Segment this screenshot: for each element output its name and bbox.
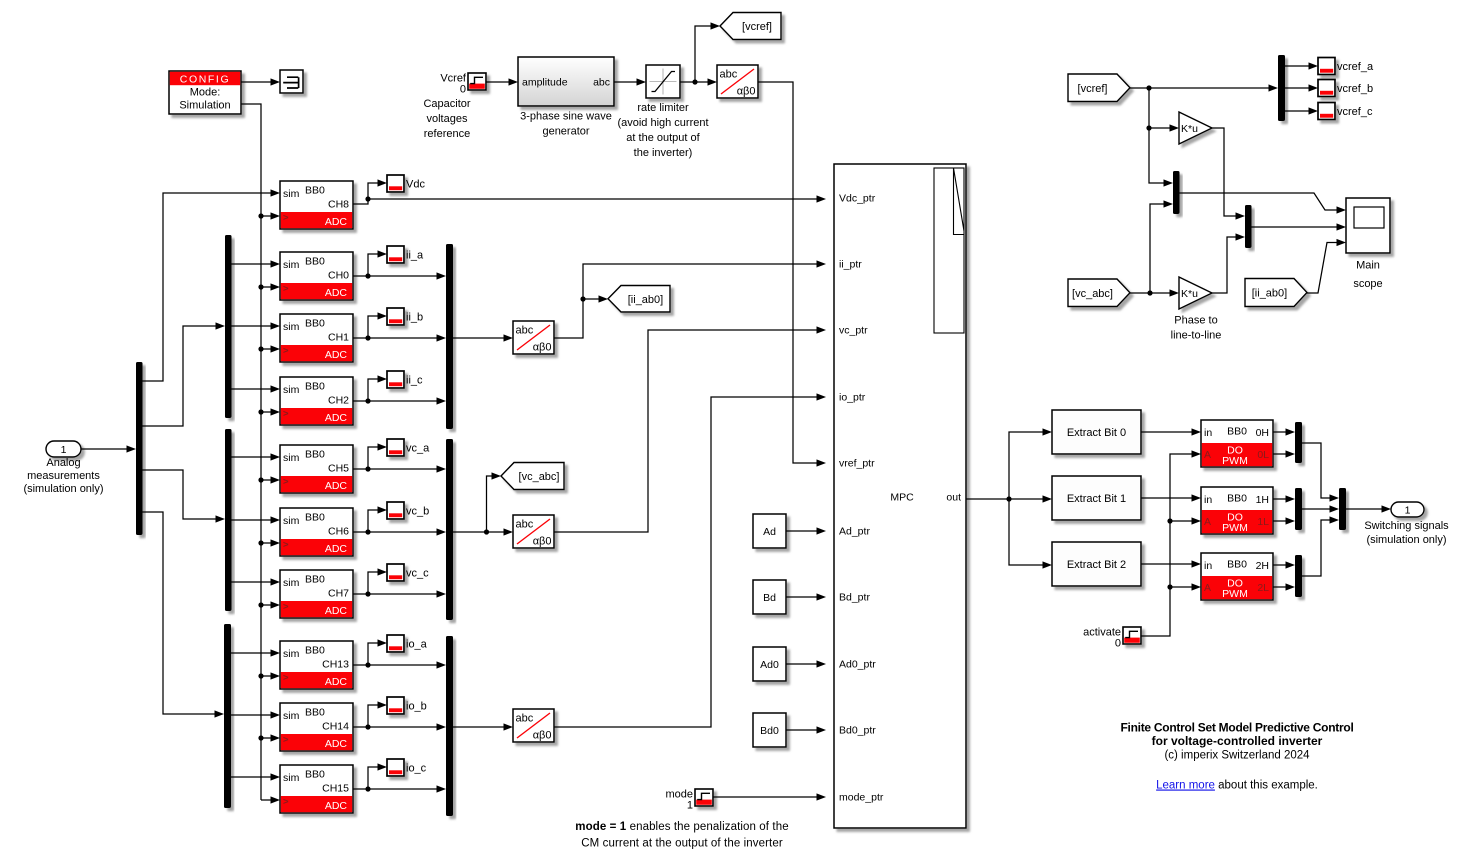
svg-text:[vc_abc]: [vc_abc] xyxy=(1072,288,1113,300)
svg-text:(simulation only): (simulation only) xyxy=(23,483,103,495)
display block vc_c xyxy=(387,564,429,581)
svg-text:sim: sim xyxy=(283,577,300,589)
svg-text:CH2: CH2 xyxy=(328,395,349,407)
abc to alpha-beta-0 block (vc) xyxy=(513,515,554,548)
svg-text:BB0: BB0 xyxy=(305,449,325,461)
constant block mode xyxy=(665,789,713,812)
wire Extract Bit 1 to DO PWM 1 xyxy=(1141,494,1201,501)
svg-text:BB0: BB0 xyxy=(305,318,325,330)
constant block activate xyxy=(1083,627,1141,650)
wire CH6 out to display and collect bar xyxy=(353,506,446,535)
svg-text:CH7: CH7 xyxy=(328,588,349,600)
from tag [vcref] xyxy=(1068,74,1130,102)
svg-text:>: > xyxy=(283,409,289,420)
svg-text:ADC: ADC xyxy=(325,349,348,361)
wire vcref from-tag to mux and gain and bar1 xyxy=(1130,84,1278,186)
svg-text:Ad: Ad xyxy=(763,526,776,538)
DO PWM 0 block xyxy=(1201,420,1273,467)
svg-text:CH13: CH13 xyxy=(322,659,349,671)
svg-text:CH8: CH8 xyxy=(328,199,349,211)
svg-text:in: in xyxy=(1204,427,1212,439)
svg-text:vcref_a: vcref_a xyxy=(1337,61,1374,73)
goto tag [ii_ab0] xyxy=(608,286,670,313)
svg-text:Ad0_ptr: Ad0_ptr xyxy=(839,659,876,671)
ADC block CH7 xyxy=(280,570,353,618)
svg-text:BB0: BB0 xyxy=(305,512,325,524)
wire demux to CH15 sim input xyxy=(231,773,280,780)
svg-text:Main: Main xyxy=(1356,260,1380,272)
svg-text:sim: sim xyxy=(283,515,300,527)
svg-text:sim: sim xyxy=(283,710,300,722)
svg-text:BB0: BB0 xyxy=(1227,493,1247,505)
svg-text:io_b: io_b xyxy=(406,701,427,713)
wire demux to CH5 sim input xyxy=(232,453,281,460)
final mux bar xyxy=(1339,488,1346,530)
svg-text:2L: 2L xyxy=(1257,582,1269,594)
svg-text:A: A xyxy=(1204,516,1211,528)
svg-text:voltages: voltages xyxy=(427,113,468,125)
ADC block CH8 xyxy=(280,181,353,229)
wire main bar to demux bar C xyxy=(143,512,225,718)
label Analog measurements (simulation only) xyxy=(23,457,103,495)
wire CH7 out to display and collect bar xyxy=(353,568,446,597)
svg-text:sim: sim xyxy=(283,321,300,333)
mux bar PWM1 xyxy=(1295,488,1302,530)
svg-text:CONFIG: CONFIG xyxy=(180,74,230,86)
svg-text:Extract Bit 1: Extract Bit 1 xyxy=(1067,493,1126,505)
svg-text:scope: scope xyxy=(1353,278,1382,290)
svg-text:Bd0_ptr: Bd0_ptr xyxy=(839,725,876,737)
svg-text:MPC: MPC xyxy=(890,492,914,504)
model info icon block xyxy=(280,70,303,93)
svg-text:Bd: Bd xyxy=(763,592,776,604)
svg-text:3-phase sine wave: 3-phase sine wave xyxy=(520,111,612,123)
svg-text:mode_ptr: mode_ptr xyxy=(839,792,884,804)
svg-text:Ad0: Ad0 xyxy=(760,659,779,671)
wire final mux to outport xyxy=(1346,505,1391,512)
Extract Bit 0 block xyxy=(1052,410,1141,454)
ADC block CH15 xyxy=(280,765,353,813)
svg-text:>: > xyxy=(283,477,289,488)
svg-text:BB0: BB0 xyxy=(305,381,325,393)
svg-text:Vdc: Vdc xyxy=(406,179,425,191)
svg-text:mode = 1 enables the penalizat: mode = 1 enables the penalization of the xyxy=(575,821,788,833)
svg-text:CH14: CH14 xyxy=(322,721,349,733)
main demux bar xyxy=(136,362,143,535)
svg-text:>: > xyxy=(283,213,289,224)
wire Extract Bit 0 to DO PWM 0 xyxy=(1141,428,1201,435)
ADC block CH0 xyxy=(280,252,353,300)
outport 1 Switching signals xyxy=(1391,502,1424,517)
goto tag [vc_abc] xyxy=(501,463,564,490)
svg-text:out: out xyxy=(946,492,961,504)
svg-text:1: 1 xyxy=(61,444,67,456)
wire rate limiter to abc-ab0 with branch to vcref goto xyxy=(680,22,720,85)
svg-text:PWM: PWM xyxy=(1222,455,1248,467)
svg-text:ii_b: ii_b xyxy=(406,312,423,324)
svg-text:αβ0: αβ0 xyxy=(533,730,552,742)
wire activate to DO PWM A inputs xyxy=(1141,450,1201,636)
svg-text:A: A xyxy=(1204,449,1211,461)
CONFIG block (Mode: Simulation) xyxy=(169,71,241,114)
svg-text:BB0: BB0 xyxy=(305,256,325,268)
mux bar ii xyxy=(446,244,453,429)
svg-text:BB0: BB0 xyxy=(305,769,325,781)
wire Bd to MPC Bd_ptr xyxy=(786,593,826,600)
wire Vcref to sine generator xyxy=(486,78,518,85)
wire CONFIG to model-info icon xyxy=(241,78,280,85)
svg-text:αβ0: αβ0 xyxy=(533,536,552,548)
svg-text:BB0: BB0 xyxy=(305,707,325,719)
wire Extract Bit 2 to DO PWM 2 xyxy=(1141,560,1201,567)
wire demux to CH13 sim input xyxy=(231,649,280,656)
display block Vdc xyxy=(387,175,425,192)
svg-text:CM current at the output of t: CM current at the output of the inverter xyxy=(581,838,783,850)
wire CH15 out to display and collect bar xyxy=(353,763,446,792)
wire CH2 out to display and collect bar xyxy=(353,375,446,404)
goto tag [vcref] xyxy=(720,13,781,40)
svg-text:vcref_b: vcref_b xyxy=(1337,83,1373,95)
display block io_b xyxy=(387,697,427,714)
svg-text:αβ0: αβ0 xyxy=(533,342,552,354)
svg-text:[ii_ab0]: [ii_ab0] xyxy=(1252,288,1287,300)
constant block Ad xyxy=(753,514,786,548)
svg-text:[vc_abc]: [vc_abc] xyxy=(519,471,560,483)
svg-text:sim: sim xyxy=(283,384,300,396)
svg-text:1: 1 xyxy=(1405,505,1411,517)
svg-text:0H: 0H xyxy=(1256,427,1269,439)
svg-text:CH15: CH15 xyxy=(322,783,349,795)
wire abc vc out to MPC vc_ptr xyxy=(554,326,826,532)
svg-text:ADC: ADC xyxy=(325,216,348,228)
wire abc io out to MPC io_ptr xyxy=(554,393,826,727)
constant block Bd xyxy=(753,580,786,614)
svg-text:ADC: ADC xyxy=(325,480,348,492)
Vcref constant block xyxy=(440,73,486,96)
inport 1 Analog measurements xyxy=(46,441,81,457)
svg-text:Switching signals: Switching signals xyxy=(1364,520,1449,532)
MPC subsystem block xyxy=(834,164,966,828)
svg-text:PWM: PWM xyxy=(1222,522,1248,534)
svg-text:2H: 2H xyxy=(1256,560,1269,572)
svg-text:io_ptr: io_ptr xyxy=(839,392,866,404)
wire mux PWM1 to final mux xyxy=(1302,505,1339,512)
wire CH8 out to Vdc display and MPC Vdc_ptr xyxy=(353,179,826,204)
wire demux to display vcref_c xyxy=(1285,107,1318,114)
svg-text:Extract Bit 2: Extract Bit 2 xyxy=(1067,559,1126,571)
svg-text:K*u: K*u xyxy=(1181,123,1198,135)
Extract Bit 1 block xyxy=(1052,476,1141,520)
wire demux to CH2 sim input xyxy=(232,385,281,392)
svg-text:0: 0 xyxy=(1115,638,1121,650)
svg-text:sim: sim xyxy=(283,188,300,200)
note mode = 1 xyxy=(575,821,788,850)
svg-text:CH1: CH1 xyxy=(328,332,349,344)
svg-text:BB0: BB0 xyxy=(305,185,325,197)
wire mux bar1 to scope input 1 xyxy=(1180,193,1347,214)
svg-text:[vcref]: [vcref] xyxy=(1078,83,1108,95)
wire CH0 out to display and collect bar xyxy=(353,250,446,279)
svg-text:ADC: ADC xyxy=(325,605,348,617)
svg-text:Vdc_ptr: Vdc_ptr xyxy=(839,193,876,205)
wire mux bar2 to scope input 2 xyxy=(1252,223,1347,230)
wire CH1 out to display and collect bar xyxy=(353,312,446,341)
svg-text:ii_c: ii_c xyxy=(406,375,423,387)
svg-text:sim: sim xyxy=(283,259,300,271)
Extract Bit 2 block xyxy=(1052,542,1141,586)
wire demux to CH7 sim input xyxy=(232,578,281,585)
3-phase sine wave generator block xyxy=(518,57,614,106)
svg-text:Bd0: Bd0 xyxy=(760,725,779,737)
mux bar 1 xyxy=(1173,171,1180,214)
svg-text:ADC: ADC xyxy=(325,800,348,812)
wire inport to main demux bar xyxy=(81,445,136,452)
wire sine generator to rate limiter xyxy=(614,78,646,85)
svg-text:>: > xyxy=(283,540,289,551)
svg-text:abc: abc xyxy=(720,69,738,81)
wire mux PWM2 to final mux xyxy=(1302,516,1339,576)
svg-text:io_a: io_a xyxy=(406,639,428,651)
label Main scope xyxy=(1353,260,1382,291)
wire abc ii out to ii_ab0 goto and MPC ii_ptr xyxy=(554,260,826,338)
svg-text:A: A xyxy=(1204,582,1211,594)
svg-text:Phase to: Phase to xyxy=(1174,315,1217,327)
svg-text:Extract Bit 0: Extract Bit 0 xyxy=(1067,427,1126,439)
svg-text:PWM: PWM xyxy=(1222,588,1248,600)
wire DO PWM 2 outputs to mux xyxy=(1273,561,1295,590)
Main scope block xyxy=(1346,198,1390,253)
wire demux to CH0 sim input xyxy=(232,260,281,267)
title annotation xyxy=(1120,721,1353,792)
constant block Ad0 xyxy=(753,647,786,681)
svg-text:Finite Control Set Model Predi: Finite Control Set Model Predictive Cont… xyxy=(1120,721,1353,735)
display block io_c xyxy=(387,759,427,776)
display block ii_a xyxy=(387,246,424,263)
wire CH5 out to display and collect bar xyxy=(353,443,446,472)
wire vc_abc from-tag to gain and mux bar1 xyxy=(1130,200,1179,296)
svg-text:[vcref]: [vcref] xyxy=(742,21,772,33)
svg-text:sim: sim xyxy=(283,452,300,464)
wire mux ii to abc-ab0 ii xyxy=(453,334,513,341)
demux bar C xyxy=(224,624,231,808)
svg-text:(simulation only): (simulation only) xyxy=(1366,534,1446,546)
svg-text:ii_ptr: ii_ptr xyxy=(839,259,862,271)
DO PWM 2 block xyxy=(1201,553,1273,600)
svg-text:>: > xyxy=(283,797,289,808)
gain K*u (vcref) xyxy=(1179,112,1212,144)
svg-text:vcref_c: vcref_c xyxy=(1337,106,1373,118)
wire gain phase to mux bar2 xyxy=(1212,233,1245,293)
constant block Bd0 xyxy=(753,713,786,747)
wire abc-ab0 vref to MPC vref_ptr xyxy=(758,82,826,467)
wire CONFIG sim trigger chain to ADC trigger inputs xyxy=(241,104,280,804)
wire mux io to abc-ab0 io xyxy=(453,723,513,730)
wire DO PWM 1 outputs to mux xyxy=(1273,495,1295,524)
ADC block CH5 xyxy=(280,445,353,493)
wire gain vcref to mux bar2 xyxy=(1212,128,1245,220)
wire demux to display vcref_a xyxy=(1285,62,1318,69)
svg-text:at the output of: at the output of xyxy=(626,132,700,144)
label Phase to line-to-line xyxy=(1171,315,1222,342)
display block ii_c xyxy=(387,371,423,388)
label 3-phase sine wave generator xyxy=(520,111,612,138)
wire main bar to CH8 sim input xyxy=(143,189,281,381)
wire main bar to demux bar A xyxy=(143,322,226,426)
svg-text:in: in xyxy=(1204,560,1212,572)
svg-text:CH5: CH5 xyxy=(328,463,349,475)
svg-text:ADC: ADC xyxy=(325,676,348,688)
wire Ad to MPC Ad_ptr xyxy=(786,527,826,534)
svg-text:1: 1 xyxy=(687,800,693,812)
display block io_a xyxy=(387,635,428,652)
svg-text:ADC: ADC xyxy=(325,412,348,424)
svg-text:Simulation: Simulation xyxy=(179,100,230,112)
label Switching signals (simulation only) xyxy=(1364,520,1449,546)
svg-text:amplitude: amplitude xyxy=(522,77,568,89)
svg-text:ADC: ADC xyxy=(325,543,348,555)
svg-text:BB0: BB0 xyxy=(1227,426,1247,438)
display block ii_b xyxy=(387,308,423,325)
svg-text:abc: abc xyxy=(516,519,534,531)
wire demux to CH6 sim input xyxy=(232,516,281,523)
wire Bd0 to MPC Bd0_ptr xyxy=(786,726,826,733)
svg-text:sim: sim xyxy=(283,648,300,660)
svg-text:in: in xyxy=(1204,494,1212,506)
svg-text:ii_a: ii_a xyxy=(406,250,424,262)
svg-text:Learn more about this example.: Learn more about this example. xyxy=(1156,780,1318,792)
svg-text:ADC: ADC xyxy=(325,287,348,299)
svg-text:>: > xyxy=(283,735,289,746)
svg-text:BB0: BB0 xyxy=(305,574,325,586)
abc to alpha-beta-0 block (io) xyxy=(513,709,554,742)
svg-text:vc_c: vc_c xyxy=(406,568,429,580)
wire CH13 out to display and collect bar xyxy=(353,639,446,668)
svg-text:CH6: CH6 xyxy=(328,526,349,538)
wire mux PWM0 to final mux xyxy=(1302,443,1339,502)
mux bar vc xyxy=(446,439,453,620)
svg-text:BB0: BB0 xyxy=(305,645,325,657)
svg-text:line-to-line: line-to-line xyxy=(1171,330,1222,342)
svg-text:(avoid high current: (avoid high current xyxy=(617,117,708,129)
DO PWM 1 block xyxy=(1201,487,1273,534)
wire demux to CH14 sim input xyxy=(231,711,280,718)
demux bar B xyxy=(225,429,232,611)
abc to alpha-beta-0 block (ii) xyxy=(513,321,554,354)
wire mux vc to abc-ab0 vc with branch to vc_abc goto xyxy=(453,472,513,535)
label rate limiter xyxy=(617,102,708,159)
svg-text:abc: abc xyxy=(516,325,534,337)
ADC block CH6 xyxy=(280,508,353,556)
svg-text:BB0: BB0 xyxy=(1227,559,1247,571)
svg-text:vc_b: vc_b xyxy=(406,506,429,518)
svg-text:Capacitor: Capacitor xyxy=(423,98,470,110)
svg-text:vc_a: vc_a xyxy=(406,443,430,455)
svg-text:sim: sim xyxy=(283,772,300,784)
display block vc_a xyxy=(387,439,430,456)
svg-text:Ad_ptr: Ad_ptr xyxy=(839,526,870,538)
svg-text:measurements: measurements xyxy=(27,470,100,482)
wire Ad0 to MPC Ad0_ptr xyxy=(786,660,826,667)
svg-text:Bd_ptr: Bd_ptr xyxy=(839,592,870,604)
svg-text:ADC: ADC xyxy=(325,738,348,750)
svg-text:>: > xyxy=(283,673,289,684)
display block vcref_a xyxy=(1318,58,1374,75)
svg-text:0: 0 xyxy=(460,84,466,96)
gain K*u (Phase to line-to-line) xyxy=(1179,277,1212,309)
ADC block CH14 xyxy=(280,703,353,751)
display block vcref_b xyxy=(1318,80,1373,97)
svg-text:reference: reference xyxy=(424,128,470,140)
wire demux to display vcref_b xyxy=(1285,84,1318,91)
svg-text:Analog: Analog xyxy=(46,457,80,469)
rate limiter block xyxy=(646,65,680,98)
svg-text:>: > xyxy=(283,284,289,295)
svg-text:[ii_ab0]: [ii_ab0] xyxy=(628,294,663,306)
svg-text:abc: abc xyxy=(593,77,610,89)
svg-text:io_c: io_c xyxy=(406,763,427,775)
svg-text:vc_ptr: vc_ptr xyxy=(839,325,868,337)
display block vcref_c xyxy=(1318,103,1373,120)
mux bar 2 xyxy=(1245,205,1252,248)
label Capacitor voltages reference xyxy=(423,98,470,140)
wire CH14 out to display and collect bar xyxy=(353,701,446,730)
wire DO PWM 0 outputs to mux xyxy=(1273,428,1295,457)
svg-text:(c) imperix Switzerland 2024: (c) imperix Switzerland 2024 xyxy=(1164,750,1310,762)
svg-text:αβ0: αβ0 xyxy=(737,86,756,98)
svg-text:CH0: CH0 xyxy=(328,270,349,282)
svg-text:abc: abc xyxy=(516,713,534,725)
wire main bar to demux bar B xyxy=(143,470,226,523)
mux bar PWM0 xyxy=(1295,422,1302,463)
svg-text:>: > xyxy=(283,602,289,613)
mux bar PWM2 xyxy=(1295,555,1302,597)
svg-text:rate limiter: rate limiter xyxy=(637,102,689,114)
svg-text:vref_ptr: vref_ptr xyxy=(839,458,875,470)
ADC block CH1 xyxy=(280,314,353,362)
mux bar io xyxy=(446,636,453,816)
ADC block CH13 xyxy=(280,641,353,689)
svg-text:generator: generator xyxy=(542,126,589,138)
from tag [vc_abc] xyxy=(1068,279,1130,307)
svg-text:Mode:: Mode: xyxy=(190,87,221,99)
wire mode to MPC mode_ptr xyxy=(713,793,826,800)
ADC block CH2 xyxy=(280,377,353,425)
svg-text:0L: 0L xyxy=(1257,449,1269,461)
svg-text:for voltage-controlled inverte: for voltage-controlled inverter xyxy=(1152,734,1323,748)
wire MPC out to Extract Bit blocks xyxy=(966,428,1052,568)
abc to alpha-beta-0 block (vref) xyxy=(717,65,758,98)
svg-text:K*u: K*u xyxy=(1181,288,1198,300)
wire demux to CH1 sim input xyxy=(232,322,281,329)
display block vc_b xyxy=(387,502,429,519)
svg-text:1L: 1L xyxy=(1257,516,1269,528)
demux bar A xyxy=(225,235,232,418)
demux bar vcref xyxy=(1278,55,1285,121)
wire ii_ab0 from-tag to scope input 3 xyxy=(1307,239,1346,293)
from tag [ii_ab0] xyxy=(1245,279,1307,307)
svg-text:>: > xyxy=(283,346,289,357)
svg-text:1H: 1H xyxy=(1256,494,1269,506)
svg-text:the inverter): the inverter) xyxy=(634,147,693,159)
